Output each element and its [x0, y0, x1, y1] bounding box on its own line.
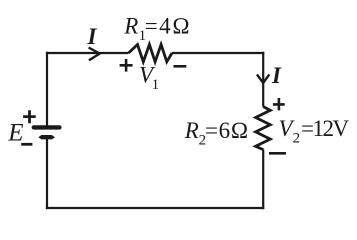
wire bottom (return path): [46, 207, 264, 209]
resistor R2 (vertical zigzag): [256, 107, 271, 150]
polarity minus (R1 right): [174, 65, 187, 68]
svg-text:R: R: [123, 14, 138, 39]
battery E: long positive plate: [34, 125, 60, 129]
polarity plus (R2 top): [273, 98, 285, 110]
battery polarity plus: [23, 110, 36, 123]
svg-text:=6Ω: =6Ω: [205, 118, 249, 143]
svg-text:2: 2: [293, 131, 301, 147]
polarity plus (R1 left): [120, 59, 133, 72]
svg-text:R: R: [184, 118, 199, 143]
wire left (E branch vertical): [46, 52, 48, 209]
battery E: short negative plate: [38, 135, 55, 139]
wire top (node from E+ to R1 and to R2): [46, 52, 264, 54]
svg-text:1: 1: [152, 77, 160, 93]
label R2=6ohm: [184, 118, 249, 148]
label V1: [139, 63, 159, 94]
svg-text:I: I: [271, 63, 282, 88]
svg-text:I: I: [87, 24, 98, 49]
svg-text:=12V: =12V: [301, 116, 349, 141]
label R1=4ohm: [123, 14, 191, 44]
svg-text:=4Ω: =4Ω: [145, 14, 192, 39]
battery polarity minus: [21, 143, 32, 146]
current arrow I (top wire, pointing right): [89, 48, 100, 61]
current arrow I (right wire, pointing down): [257, 74, 269, 83]
resistor R1 (zigzag): [129, 45, 173, 62]
label V2=12V: [279, 116, 350, 147]
wire right (R2 branch vertical): [262, 52, 264, 209]
svg-text:E: E: [7, 119, 23, 146]
polarity minus (R2 bottom): [269, 152, 286, 155]
